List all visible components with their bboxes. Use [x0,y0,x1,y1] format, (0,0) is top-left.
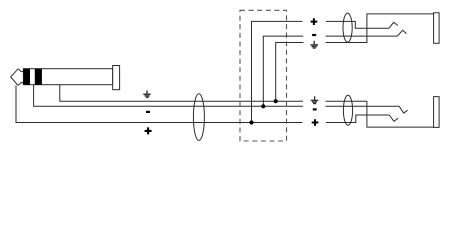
junction dot + [249,120,253,124]
wire: - to top socket [326,35,398,37]
ground symbol (bottom-right group) [311,96,319,103]
minus label (bottom-right group) [313,108,317,110]
wire: ground to top socket frame [326,14,434,43]
plus label (top-right group) [311,18,318,25]
tip contact spring (top socket) [389,22,398,28]
ground symbol (left group) [143,90,150,97]
plus label (bottom-right group) [312,119,319,126]
jack socket J2 bushing (bottom-right) [434,97,440,128]
wire: + to top socket with step [326,21,389,28]
dashed breakout box [240,10,287,141]
wire: ground to bottom socket frame [326,101,434,127]
ring contact spring (bottom socket) [399,106,407,113]
minus label (top-right group) [312,34,316,36]
wire: ring (-) lead from plug down and right [34,85,303,107]
ground symbol (top-right group) [310,41,318,48]
tip contact spring (bottom socket) [389,115,398,121]
junction dot ground [274,99,278,103]
ring contact spring (top socket) [397,30,406,36]
wire: tip (+) lead from plug down and right [16,85,303,122]
wire: - to bottom socket [326,105,400,107]
cable ellipse (bottom-right cable) [343,95,352,125]
cable ellipse (top-right cable) [343,13,352,42]
jack socket J1 bushing (top-right) [434,13,440,44]
plus label (left group) [145,127,152,134]
cable ellipse (left cable) [193,94,204,141]
wire: + branch up inside box [252,21,303,122]
wire: sleeve (ground) lead from plug down and right [60,85,303,102]
junction dot - [261,104,265,108]
TRS plug P1 (1/4 inch stereo jack plug, left) [11,66,120,90]
wire: - branch up inside box [263,36,303,106]
wire: + to bottom socket with step [326,115,389,123]
wire: ground branch up inside box [276,43,304,102]
minus label (left group) [146,111,150,113]
